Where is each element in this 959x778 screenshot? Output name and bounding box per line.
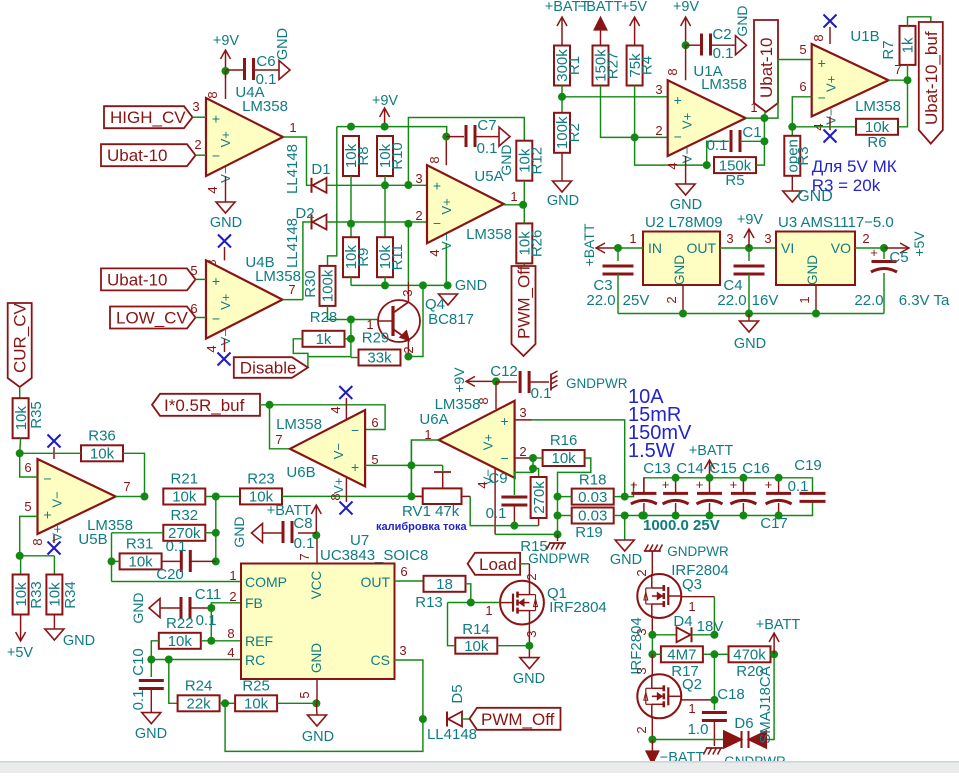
resistor R4 xyxy=(627,46,656,86)
wire Disable to R29 node xyxy=(308,356,351,358)
resistor R34 xyxy=(46,556,79,615)
junction xyxy=(381,123,389,131)
svg-text:5: 5 xyxy=(24,499,31,514)
capacitor C20 xyxy=(156,538,216,583)
resistor R25 xyxy=(235,677,277,712)
svg-text:C8: C8 xyxy=(293,515,312,532)
resistor R22 xyxy=(159,615,201,650)
svg-text:3: 3 xyxy=(634,667,649,674)
svg-text:8: 8 xyxy=(328,493,343,500)
junction xyxy=(710,696,718,704)
capacitor C8 xyxy=(263,515,317,552)
junction xyxy=(525,642,533,650)
capacitor C16 (polarized) xyxy=(730,477,757,516)
svg-text:R21: R21 xyxy=(171,471,199,488)
svg-text:6: 6 xyxy=(371,415,378,430)
svg-text:VO: VO xyxy=(831,240,851,256)
svg-text:2: 2 xyxy=(415,208,422,223)
wire Q1 source xyxy=(524,625,539,658)
wire to R34 xyxy=(20,555,55,557)
svg-text:1.0: 1.0 xyxy=(688,721,709,738)
cap bank labels xyxy=(643,457,822,534)
svg-text:V+: V+ xyxy=(331,478,346,494)
resistor R16 xyxy=(543,432,585,467)
svg-text:0.03: 0.03 xyxy=(578,508,607,525)
svg-text:GND: GND xyxy=(610,552,642,568)
svg-text:+: + xyxy=(501,413,509,429)
svg-text:C10: C10 xyxy=(130,648,147,676)
junction xyxy=(212,529,220,537)
capacitor C7 xyxy=(446,117,499,157)
svg-text:V−: V− xyxy=(824,108,839,124)
wire pin2 node to U1A xyxy=(635,123,668,138)
svg-text:U6B: U6B xyxy=(286,464,315,481)
wire GND pin5 xyxy=(297,679,317,703)
junction xyxy=(672,474,680,482)
wire R7 bottom xyxy=(907,65,909,80)
junction xyxy=(407,461,415,469)
junction xyxy=(312,699,320,707)
resistor R2 xyxy=(554,113,583,153)
svg-text:10k: 10k xyxy=(168,633,193,650)
wire pin8 node U5A xyxy=(427,137,446,166)
svg-text:GND: GND xyxy=(513,671,545,687)
wire R35 bottom xyxy=(19,438,22,453)
svg-text:2: 2 xyxy=(519,444,526,459)
svg-text:GND: GND xyxy=(734,336,766,352)
svg-text:GND: GND xyxy=(231,516,247,547)
junction xyxy=(108,557,116,565)
svg-text:U5B: U5B xyxy=(78,531,107,548)
svg-text:GND: GND xyxy=(309,643,324,673)
junction xyxy=(621,493,629,501)
capacitor C14 (polarized) xyxy=(662,477,689,516)
svg-text:4M7: 4M7 xyxy=(667,647,696,664)
svg-text:R16: R16 xyxy=(550,432,578,449)
svg-text:Ubat-10_buf: Ubat-10_buf xyxy=(922,31,941,125)
power-ground GNDPWR (shunt) xyxy=(528,534,590,566)
junction xyxy=(812,310,820,318)
wire FB xyxy=(211,589,241,641)
ground GND (U1A) xyxy=(665,156,702,213)
wire pin2 to R16 xyxy=(533,457,543,459)
resistor R21 xyxy=(163,471,205,506)
junction xyxy=(381,281,389,289)
svg-text:R6: R6 xyxy=(867,134,886,151)
junction xyxy=(312,531,320,539)
wire Q4 collector xyxy=(407,281,409,302)
junction xyxy=(212,493,220,501)
wire R32 right xyxy=(205,532,216,534)
svg-text:GND: GND xyxy=(210,215,242,231)
wire R21 right xyxy=(205,496,240,498)
wire R23 to RV1 node xyxy=(282,495,423,497)
svg-text:калибровка тока: калибровка тока xyxy=(376,521,468,533)
power +BATT (C8) xyxy=(267,503,322,519)
no-connect U4B pin8 xyxy=(204,235,231,267)
svg-text:VI: VI xyxy=(781,240,794,256)
label HIGH_CV xyxy=(104,99,200,128)
diode D4 xyxy=(652,613,723,642)
svg-text:GND: GND xyxy=(547,193,579,209)
resistor R17 xyxy=(661,646,703,680)
svg-text:+5V: +5V xyxy=(7,645,34,661)
svg-text:CUR_CV: CUR_CV xyxy=(11,302,30,373)
no-connect U6B pin4 xyxy=(328,386,352,419)
label Ubat-10_buf (vertical) xyxy=(919,22,943,144)
svg-text:16V: 16V xyxy=(752,292,779,309)
power +5V (R33) xyxy=(7,615,34,662)
note power rating xyxy=(628,386,692,462)
wire U3 VI xyxy=(749,231,776,248)
svg-text:V+: V+ xyxy=(481,434,496,450)
junction xyxy=(147,656,155,664)
label Ubat-10 (vertical) xyxy=(754,20,778,112)
wire R18 leads xyxy=(558,496,625,498)
resistor R7 xyxy=(880,26,917,65)
svg-text:R36: R36 xyxy=(88,427,116,444)
wire Q3 source to R17 xyxy=(651,635,653,655)
svg-text:10k: 10k xyxy=(129,554,154,571)
junction xyxy=(745,310,753,318)
diode D5 LL4148 xyxy=(427,684,477,743)
wire Load to Q1 drain xyxy=(520,563,529,565)
svg-text:3: 3 xyxy=(192,99,199,114)
junction xyxy=(404,353,412,361)
svg-text:U5A: U5A xyxy=(474,168,503,185)
svg-text:IRF2804: IRF2804 xyxy=(549,599,607,616)
wire R7 top loop xyxy=(908,17,931,26)
power -BATT (Q2) xyxy=(646,740,704,766)
transistor Q2 IRF2804 xyxy=(637,674,702,718)
wire Q4 emitter xyxy=(407,340,409,357)
power +BATT (cap bank) xyxy=(689,443,734,478)
resistor R29 xyxy=(359,330,401,367)
svg-text:−: − xyxy=(818,90,826,106)
junction xyxy=(880,244,888,252)
resistor R11 xyxy=(377,237,406,277)
wire Q3 gate xyxy=(681,597,714,614)
no-connect U5B pin8 xyxy=(30,535,61,555)
svg-text:+9V: +9V xyxy=(213,33,240,49)
junction xyxy=(467,599,475,607)
wire D5 to PWM_Off xyxy=(462,718,470,720)
svg-text:C5: C5 xyxy=(889,249,908,266)
wire R28 right xyxy=(345,338,351,340)
ground GND (R34) xyxy=(45,615,95,650)
wire D2 to U5A pin2 row xyxy=(327,221,428,223)
junction xyxy=(419,715,427,723)
svg-text:2: 2 xyxy=(664,296,679,303)
svg-text:UC3843_SOIC8: UC3843_SOIC8 xyxy=(320,547,428,564)
svg-text:COMP: COMP xyxy=(245,574,287,590)
wire U6A pin8 xyxy=(476,381,496,409)
wire R6 to output xyxy=(898,80,908,127)
label Disable xyxy=(234,357,308,378)
svg-text:5: 5 xyxy=(190,263,197,278)
svg-text:−: − xyxy=(351,422,359,438)
svg-text:I*0.5R_buf: I*0.5R_buf xyxy=(164,396,245,415)
junction xyxy=(554,493,562,501)
svg-text:FB: FB xyxy=(245,595,263,611)
junction xyxy=(760,114,768,122)
no-connect U1B pin4 xyxy=(811,116,837,142)
wire U5B pin6 xyxy=(20,453,38,477)
svg-text:C1: C1 xyxy=(742,124,761,141)
svg-text:R4: R4 xyxy=(639,56,656,75)
wire pin5 U4B xyxy=(196,278,207,280)
wire bottom loop to D5 xyxy=(225,703,423,751)
svg-text:GND: GND xyxy=(63,633,95,649)
svg-text:Ubat-10: Ubat-10 xyxy=(757,38,776,98)
svg-text:−: − xyxy=(501,450,509,466)
power -BATT (R27) xyxy=(578,0,623,45)
svg-text:4: 4 xyxy=(227,645,234,660)
svg-text:C19: C19 xyxy=(794,457,822,474)
svg-text:−: − xyxy=(212,310,220,326)
power +9V (U6A supply) xyxy=(451,367,496,393)
svg-text:7: 7 xyxy=(288,282,295,297)
wire pin6 node to R6 xyxy=(792,126,856,128)
svg-text:GNDPWR: GNDPWR xyxy=(667,544,729,559)
transistor Q1 IRF2804 xyxy=(500,581,607,625)
svg-text:V+: V+ xyxy=(218,294,233,310)
svg-text:V−: V− xyxy=(331,443,346,459)
svg-text:LM358: LM358 xyxy=(855,98,901,115)
svg-text:3: 3 xyxy=(400,289,415,296)
resistor R28 xyxy=(303,309,345,348)
ground GND (regulators) xyxy=(734,314,766,353)
svg-text:7: 7 xyxy=(123,479,130,494)
ground GND (C11) xyxy=(130,592,160,623)
svg-text:Для 5V МК: Для 5V МК xyxy=(812,157,897,176)
svg-text:7: 7 xyxy=(297,553,312,560)
svg-text:U6A: U6A xyxy=(419,411,448,428)
svg-text:D1: D1 xyxy=(311,161,330,178)
svg-text:Q3: Q3 xyxy=(682,576,702,593)
svg-text:4: 4 xyxy=(328,406,343,413)
svg-text:LL4148: LL4148 xyxy=(284,218,301,268)
wire pin4 to GNDPWR node xyxy=(495,533,557,535)
wire R31 left xyxy=(112,560,120,562)
svg-text:6: 6 xyxy=(799,79,806,94)
no-connect U4B pin4 xyxy=(204,339,231,366)
wire U4A output to D1 xyxy=(283,120,311,185)
resistor R14 xyxy=(455,621,497,655)
note calibration xyxy=(376,521,468,533)
svg-text:−: − xyxy=(674,128,682,144)
resistor R13 xyxy=(415,576,465,611)
wire pin8 U4A xyxy=(205,71,226,99)
svg-text:4: 4 xyxy=(427,249,442,256)
junction xyxy=(529,454,537,462)
wire R13 to gate node xyxy=(466,584,471,603)
junction xyxy=(679,310,687,318)
wire RV1 to C9 bottom row xyxy=(470,496,538,525)
regulator U2 L78M09 xyxy=(643,214,723,285)
svg-text:0.1: 0.1 xyxy=(196,612,217,629)
svg-text:R19: R19 xyxy=(575,524,603,541)
label Load xyxy=(468,553,520,575)
svg-text:R3: R3 xyxy=(795,146,812,165)
junction xyxy=(710,631,718,639)
junction xyxy=(347,335,355,343)
svg-text:+BATT: +BATT xyxy=(581,223,597,266)
wire RC xyxy=(151,645,241,660)
wire pin8 U1A xyxy=(665,45,686,80)
wire U2 IN xyxy=(618,231,643,248)
power +9V (U1A supply) xyxy=(673,0,700,45)
junction xyxy=(770,650,778,658)
wire Q1 drain xyxy=(524,564,539,581)
junction xyxy=(648,631,656,639)
svg-text:C14: C14 xyxy=(676,460,704,477)
wire COMP xyxy=(112,568,242,583)
svg-text:C15: C15 xyxy=(709,460,737,477)
resistor R33 xyxy=(13,556,45,615)
capacitor C10 xyxy=(130,648,164,712)
junction xyxy=(16,552,24,560)
wire R16 to shunt left xyxy=(558,458,591,534)
svg-text:3: 3 xyxy=(764,231,771,246)
wire emitter to ground rail xyxy=(408,285,423,356)
wire R4 to pin2 node xyxy=(634,86,636,138)
resistor R24 xyxy=(178,677,220,712)
svg-text:R9: R9 xyxy=(355,248,372,267)
op-amp U5A xyxy=(427,165,512,250)
svg-text:0.1: 0.1 xyxy=(166,538,187,555)
svg-text:R10: R10 xyxy=(389,142,406,170)
svg-text:+: + xyxy=(630,477,638,492)
wire output to node xyxy=(270,405,291,449)
wire U1A output xyxy=(746,100,765,118)
wire R1 to divider node xyxy=(561,86,563,113)
wire U3 VO xyxy=(855,231,884,248)
wire base node to Q4 xyxy=(351,319,384,321)
resistor R12 xyxy=(516,141,545,181)
label PWM_Off (vertical) xyxy=(512,265,536,356)
svg-text:R35: R35 xyxy=(28,401,45,429)
svg-text:GND: GND xyxy=(805,255,820,285)
svg-text:D6: D6 xyxy=(734,715,753,732)
svg-text:LL4148: LL4148 xyxy=(427,726,477,743)
wire Q2 gate xyxy=(681,700,714,716)
power +BATT (R1) xyxy=(545,0,590,45)
label PWM_Off xyxy=(470,708,561,730)
svg-text:GND: GND xyxy=(734,5,750,36)
wire pin3 U4A xyxy=(193,116,207,118)
svg-text:270k: 270k xyxy=(531,481,548,514)
svg-text:Load: Load xyxy=(479,555,517,574)
junction xyxy=(672,512,680,520)
label LOW_CV xyxy=(110,301,198,329)
svg-text:1: 1 xyxy=(688,599,695,614)
capacitor C1 xyxy=(707,124,765,165)
power +5V (U3 out) xyxy=(884,231,927,257)
no-connect U5B pin4 xyxy=(48,435,61,460)
svg-text:Ubat-10: Ubat-10 xyxy=(107,270,167,289)
svg-text:0.1: 0.1 xyxy=(130,690,147,711)
capacitor C13 (polarized) xyxy=(630,477,657,516)
junction xyxy=(739,512,747,520)
junction xyxy=(222,67,230,75)
svg-text:U2 L78M09: U2 L78M09 xyxy=(645,214,723,231)
resistor R15 (270k) xyxy=(520,469,548,556)
svg-text:PWM_Off: PWM_Off xyxy=(481,710,555,729)
junction xyxy=(710,650,718,658)
svg-text:R12: R12 xyxy=(528,147,545,175)
svg-text:22k: 22k xyxy=(187,696,212,713)
svg-text:0.1: 0.1 xyxy=(788,478,809,495)
svg-text:R26: R26 xyxy=(528,230,545,258)
resistor R10 xyxy=(377,136,406,176)
junction xyxy=(706,512,714,520)
diode D1 LL4148 xyxy=(284,144,331,194)
svg-text:U1B: U1B xyxy=(850,28,879,45)
svg-text:GND: GND xyxy=(130,592,146,623)
wire divider to U1A pin3 xyxy=(562,82,668,97)
svg-text:V+: V+ xyxy=(439,198,454,214)
label Ubat-10 (U4B) xyxy=(101,263,198,290)
wire R25 right to GND pin xyxy=(277,702,316,704)
svg-text:1: 1 xyxy=(289,120,296,135)
scrollbar strip xyxy=(0,761,959,773)
resistor R18 xyxy=(572,472,614,506)
label IRF2804 (Q2 vertical) xyxy=(628,617,645,675)
svg-text:GNDPWR: GNDPWR xyxy=(566,376,628,391)
svg-text:C11: C11 xyxy=(195,586,221,603)
junction xyxy=(347,123,355,131)
svg-text:2: 2 xyxy=(229,589,236,604)
svg-text:RV1 47k: RV1 47k xyxy=(402,503,460,520)
ground GND (C2) xyxy=(734,5,750,54)
svg-text:10k: 10k xyxy=(552,450,577,467)
junction xyxy=(407,492,415,500)
wire R27 to pin2 node xyxy=(601,86,635,138)
svg-text:+: + xyxy=(351,459,359,475)
svg-text:GND: GND xyxy=(455,278,487,294)
svg-text:+9V: +9V xyxy=(451,367,467,393)
op-amp U1B xyxy=(812,28,901,125)
wire +BATT to VCC node xyxy=(315,518,317,535)
junction xyxy=(221,699,229,707)
junction xyxy=(510,522,518,530)
power +BATT (C3) xyxy=(581,223,618,266)
wire U6A pin3 to shunt xyxy=(515,420,625,497)
capacitor C12 xyxy=(490,363,551,402)
junction xyxy=(16,449,24,457)
junction xyxy=(529,465,537,473)
svg-text:4: 4 xyxy=(665,162,680,169)
svg-text:0.1: 0.1 xyxy=(477,140,498,157)
ground GND (C6) xyxy=(275,28,291,80)
resistor R6 xyxy=(856,119,898,151)
svg-text:1k: 1k xyxy=(316,331,332,348)
svg-text:+: + xyxy=(433,177,441,193)
junction xyxy=(554,512,562,520)
IC U7 UC3843_SOIC8 xyxy=(241,532,428,679)
svg-text:1: 1 xyxy=(485,603,492,618)
ground GND (U5A rail) xyxy=(439,278,488,305)
svg-text:V−: V− xyxy=(218,329,233,345)
resistor R31 xyxy=(120,535,162,570)
wire R30 to base node xyxy=(328,306,351,320)
svg-text:LM358: LM358 xyxy=(701,76,747,93)
wire U6B pin5 xyxy=(365,464,411,466)
wire Q3 source xyxy=(634,618,652,636)
resistor R30 xyxy=(302,266,337,306)
wire hysteresis feed xyxy=(408,118,524,186)
